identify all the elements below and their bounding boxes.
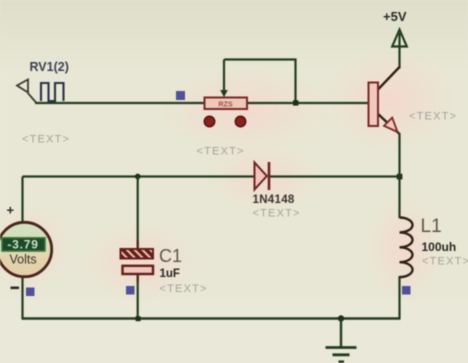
wire pot to transistor base — [247, 102, 369, 104]
wire left vertical (voltmeter branch) — [21, 177, 23, 319]
voltmeter — [0, 222, 52, 276]
ground — [326, 319, 357, 362]
value 1uF — [160, 268, 180, 280]
text placeholder under input — [22, 134, 70, 146]
svg-text:+5V: +5V — [383, 9, 407, 24]
text placeholder under diode — [253, 208, 301, 220]
svg-text:<TEXT>: <TEXT> — [253, 208, 301, 220]
wire top loop — [224, 60, 296, 104]
svg-text:Volts: Volts — [10, 252, 37, 266]
svg-text:1N4148: 1N4148 — [253, 194, 295, 206]
node marker blue (voltmeter minus) — [26, 288, 35, 297]
wire collector vertical — [398, 33, 400, 69]
label 1N4148 — [253, 194, 295, 206]
svg-text:-3.79: -3.79 — [7, 238, 38, 252]
capacitor C1 — [121, 241, 154, 283]
svg-text:L1: L1 — [421, 216, 442, 237]
node marker blue (capacitor) — [126, 286, 135, 295]
text placeholder under L1 — [422, 256, 468, 268]
node junction bottom / capacitor — [136, 316, 141, 321]
node marker blue (input row) — [176, 91, 185, 100]
node junction bottom / ground — [338, 315, 344, 321]
svg-text:+: + — [7, 203, 15, 218]
wire diode row right — [269, 175, 400, 177]
pin dot left — [204, 116, 214, 126]
wire bottom rail — [22, 317, 401, 320]
wire capacitor top branch — [137, 177, 139, 250]
text placeholder near transistor — [409, 110, 457, 122]
svg-text:1uF: 1uF — [160, 268, 180, 280]
node junction diode row / capacitor branch — [135, 174, 141, 180]
svg-text:<TEXT>: <TEXT> — [422, 256, 468, 268]
pulse waveform icon — [41, 83, 64, 101]
wire right vertical upper (emitter to diode row) — [398, 133, 400, 177]
transistor Q1 — [369, 67, 400, 134]
svg-text:<TEXT>: <TEXT> — [22, 134, 70, 146]
power +5V arrow — [392, 30, 407, 47]
plus terminal label — [7, 203, 15, 218]
node junction diode row / right vertical — [397, 174, 403, 180]
wire capacitor bottom branch — [137, 273, 139, 319]
power +5V label — [383, 9, 407, 24]
value 100uh — [422, 240, 457, 254]
potentiometer RV1 body — [205, 98, 248, 110]
terminal input — [17, 80, 37, 104]
label RV1(2) — [30, 60, 69, 74]
svg-text:RZS: RZS — [218, 100, 233, 109]
svg-text:<TEXT>: <TEXT> — [160, 283, 208, 295]
text placeholder under C1 — [160, 283, 208, 295]
label L1 — [421, 216, 442, 237]
diode D1 — [255, 162, 270, 190]
wire right vertical lower (inductor to bottom rail) — [398, 276, 400, 319]
node marker blue (inductor) — [402, 286, 411, 295]
wire diode row left — [23, 175, 255, 177]
minus terminal label — [11, 287, 20, 290]
inductor L1 — [400, 218, 413, 278]
label C1 — [159, 246, 182, 266]
svg-text:100uh: 100uh — [422, 240, 457, 254]
node junction at loop/base wire — [293, 100, 298, 105]
svg-text:<TEXT>: <TEXT> — [409, 110, 457, 122]
svg-text:<TEXT>: <TEXT> — [197, 146, 245, 158]
potentiometer wiper arrow — [220, 60, 228, 98]
text placeholder near pot — [197, 146, 245, 158]
wire right vertical (diode row to inductor) — [398, 177, 400, 219]
pin dot right — [235, 116, 245, 126]
svg-text:RV1(2): RV1(2) — [30, 60, 69, 74]
wire main row left segment — [35, 102, 205, 104]
svg-text:C1: C1 — [159, 246, 182, 266]
